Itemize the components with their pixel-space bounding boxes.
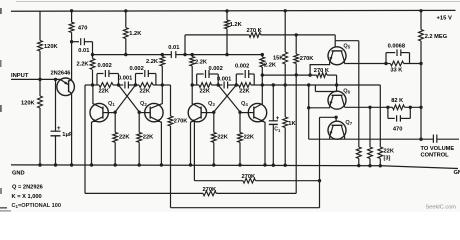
node box1 right — [117, 83, 120, 86]
svg-text:22K: 22K — [140, 88, 151, 94]
svg-text:470: 470 — [78, 25, 88, 31]
svg-text:0.001: 0.001 — [217, 76, 231, 82]
resistor R1 120K upper — [38, 41, 43, 52]
resistor R13 1.2K — [225, 20, 230, 29]
svg-text:Q4: Q4 — [241, 101, 248, 107]
wire 1.2K-2 column — [226, 11, 228, 20]
svg-text:2.2K: 2.2K — [146, 59, 159, 65]
wire Q1 base 22K — [114, 113, 116, 133]
node 270K line P — [295, 73, 298, 76]
node Q4 base — [238, 111, 241, 114]
transistor Q2 circle — [145, 103, 163, 121]
svg-text:270 K: 270 K — [247, 28, 263, 34]
svg-text:2.2 MEG: 2.2 MEG — [425, 34, 448, 40]
resistor R25 270K line B — [203, 191, 216, 196]
scan artifact left edge marks — [0, 8, 2, 14]
wire Q4 base 22K — [239, 113, 241, 133]
node line1 R10 — [161, 53, 164, 56]
Q3 emitter lead — [191, 117, 202, 165]
wire line B feedback — [85, 84, 93, 86]
svg-text:0.002: 0.002 — [130, 66, 144, 72]
wire input line — [11, 78, 56, 80]
node Q3 emitter ground — [189, 163, 192, 166]
scan artifact top line — [16, 1, 460, 3]
wire slant box2 to Q1 base — [115, 85, 135, 112]
wire Q5 output line — [344, 63, 386, 65]
node 1.2K-2 rail — [225, 9, 228, 12]
Q6 collector lead — [341, 95, 344, 107]
svg-text:C1: C1 — [274, 127, 281, 133]
svg-text:22K: 22K — [119, 135, 130, 141]
svg-text:0.0068: 0.0068 — [388, 44, 405, 50]
node output bus — [419, 138, 422, 141]
svg-text:Q = 2N2926: Q = 2N2926 — [12, 185, 43, 191]
wire 2.2MEG column — [420, 11, 422, 30]
svg-text:22K: 22K — [99, 88, 110, 94]
svg-text:INPUT: INPUT — [11, 73, 29, 79]
node B2/470/cap junction — [70, 40, 73, 43]
Q7 base bar — [332, 124, 343, 126]
capacitor C3 0.01 coupling — [170, 51, 172, 58]
node R9 ground — [138, 163, 141, 166]
svg-text:2.2K: 2.2K — [195, 59, 208, 65]
Q6 emitter arrow — [330, 101, 333, 105]
svg-text:C1=OPTIONAL 100: C1=OPTIONAL 100 — [12, 203, 61, 209]
node R17 ground — [212, 163, 215, 166]
svg-text:[3]: [3] — [384, 156, 391, 162]
Q7 collector lead — [341, 125, 344, 139]
Q4 collector lead — [254, 85, 262, 108]
svg-text:+: + — [276, 116, 280, 122]
Q4 base bar — [253, 107, 255, 119]
resistor R16 22K coupling — [239, 83, 251, 88]
svg-text:Q7: Q7 — [345, 120, 352, 126]
wire Q7 base lead — [320, 116, 337, 118]
Q3 base bar — [200, 107, 202, 119]
wire 33K main — [386, 63, 390, 65]
svg-text:+: + — [57, 126, 61, 132]
capacitor C2 0.01 — [72, 41, 79, 43]
node 1.2K-1 rail — [124, 9, 127, 12]
wire Q1 collector load — [92, 55, 94, 59]
svg-text:22K: 22K — [244, 135, 255, 141]
resistor R20 2.2K Q4 load — [260, 57, 265, 67]
node 1uF ground — [54, 163, 57, 166]
node 2.2MEG rail — [419, 9, 422, 12]
node 470 rail junction — [70, 9, 73, 12]
wire slant box3 to Q4 base — [218, 85, 240, 112]
node Q2 base — [138, 111, 141, 114]
svg-text:2.2K: 2.2K — [77, 62, 90, 68]
resistor R29 22K output — [368, 147, 373, 159]
svg-text:Q3: Q3 — [208, 101, 215, 107]
svg-text:1K: 1K — [288, 121, 296, 127]
wire Q2 collector load — [161, 55, 163, 57]
svg-text:K = X 1,000: K = X 1,000 — [12, 194, 42, 200]
capacitor C12 470 — [387, 107, 389, 118]
resistor R15 22K coupling — [199, 83, 212, 88]
wire 120K column — [39, 11, 41, 41]
resistor R8 22K Q1 base — [113, 132, 118, 142]
capacitor C9 0.002 branch — [235, 74, 237, 85]
node Q2 emitter ground — [160, 163, 163, 166]
svg-text:22K: 22K — [239, 88, 250, 94]
svg-text:Q6: Q6 — [343, 89, 350, 95]
resistor R26 33K — [390, 61, 403, 66]
node C10 junction — [272, 83, 275, 86]
Q1 collector lead — [93, 85, 103, 108]
node x309 line Q — [307, 83, 310, 86]
capacitor C11 0.0068 — [385, 53, 387, 64]
wire Q3 base 22K — [213, 113, 215, 133]
Q5 base bar — [332, 50, 343, 52]
node R19 ground — [238, 163, 241, 166]
capacitor C7 0.002 branch — [196, 74, 198, 85]
wire 15K column — [284, 11, 286, 52]
node UJT B1 ground — [70, 163, 73, 166]
resistor R28 270K — [317, 73, 328, 78]
UJT emitter arrow — [64, 81, 68, 84]
svg-text:CONTROL: CONTROL — [421, 152, 450, 158]
capacitor C5 0.001 — [119, 84, 124, 86]
wire box1 bottom w/ 22K — [93, 84, 100, 86]
node line2 R20 — [261, 53, 264, 56]
Q2 emitter arrow — [157, 119, 161, 122]
svg-text:120K: 120K — [44, 44, 58, 50]
Q5 emitter lead — [310, 51, 333, 75]
wire node line 2 — [185, 54, 262, 56]
resistor R17 22K Q3 base — [211, 132, 216, 142]
wire x309 column — [308, 85, 310, 139]
svg-text:120K: 120K — [21, 101, 35, 107]
node box2 left — [134, 83, 137, 86]
wire Q1 base lead — [103, 112, 115, 114]
Q1 emitter lead — [92, 117, 103, 165]
node Q7 base — [334, 116, 337, 119]
node Q4 collector — [261, 83, 264, 86]
resistor R5 2.2K Q1 load — [90, 59, 95, 70]
transistor Q7 circle — [328, 121, 346, 139]
resistor R3 470 — [69, 22, 74, 32]
node 15K mid line — [284, 83, 287, 86]
capacitor C13 output coupling — [432, 135, 434, 143]
svg-text:270K: 270K — [242, 174, 256, 180]
svg-text:270K: 270K — [203, 187, 217, 193]
transistor Q8 2N2646 UJT circle — [57, 78, 75, 96]
svg-text:Q5: Q5 — [343, 44, 350, 50]
Q4 emitter lead — [254, 117, 265, 165]
node line2 R14 — [191, 53, 194, 56]
wire box4 bottom w/ 22K — [236, 84, 238, 86]
node R29 ground — [368, 164, 371, 167]
Q4 emitter arrow — [261, 119, 265, 122]
transistor Q6 circle — [328, 91, 346, 109]
resistor R2 120K lower — [38, 96, 43, 108]
Q3 emitter arrow — [191, 119, 195, 122]
wire Q5 base lead — [334, 41, 336, 47]
svg-text:22K: 22K — [384, 149, 395, 155]
svg-text:270K: 270K — [300, 56, 314, 62]
UJT emitter lead — [56, 79, 69, 84]
svg-text:+15 V: +15 V — [437, 15, 452, 21]
node x309 Q6 emitter — [307, 106, 310, 109]
wire 1K column — [284, 85, 286, 117]
wire line P Q4 to Q6 base — [262, 74, 316, 76]
node line1-C2 — [91, 53, 94, 56]
resistor R27 22K output — [356, 147, 361, 159]
svg-text:GND: GND — [12, 171, 25, 177]
svg-text:2N2646: 2N2646 — [51, 71, 71, 77]
transistor Q4 circle — [248, 103, 266, 121]
wire C10 branch — [272, 85, 274, 121]
wire Q3 base lead — [201, 112, 214, 114]
Q6 emitter lead — [309, 95, 334, 108]
node 82K bus — [419, 106, 422, 109]
Q7 emitter arrow — [330, 131, 333, 135]
wire coupling riser — [184, 35, 186, 55]
wire Q3 collector load — [191, 55, 193, 57]
wire Q4 collector load — [261, 55, 263, 57]
Q5 collector lead — [341, 51, 344, 64]
node y35 x296 — [295, 33, 298, 36]
svg-text:1.2K: 1.2K — [129, 31, 142, 37]
wire +15V top supply rail — [11, 9, 456, 12]
UJT base bar — [68, 80, 70, 92]
resistor R30 82K — [393, 105, 405, 110]
svg-text:22K: 22K — [143, 135, 154, 141]
resistor R24 270K — [294, 54, 299, 64]
wire Q6 output line — [345, 106, 388, 108]
svg-text:270K: 270K — [174, 119, 188, 125]
svg-text:SeekIC.com: SeekIC.com — [426, 205, 457, 211]
Q2 emitter lead — [150, 117, 161, 165]
wire Q2 base 22K — [138, 113, 140, 133]
Q6 base bar — [332, 94, 343, 96]
node 82K right — [409, 106, 412, 109]
resistor R7 22K coupling — [139, 83, 153, 88]
svg-text:TO VOLUME: TO VOLUME — [421, 146, 455, 152]
capacitor C6 0.002 branch — [135, 74, 137, 86]
wire line Q step detour — [314, 85, 316, 92]
resistor R12 270K — [249, 33, 261, 38]
wire line A feedback — [193, 121, 195, 180]
node Q6 base junction — [335, 83, 338, 86]
wire UJT B1 lead — [69, 91, 72, 165]
wire x358 column — [358, 41, 360, 147]
wire 270K column x296 — [295, 35, 297, 54]
wire Q6 base lead — [336, 85, 338, 91]
node box4 left — [235, 83, 238, 86]
resistor R19 22K Q4 base — [238, 132, 243, 142]
resistor R22 15K — [283, 52, 288, 64]
wire line C feedback — [171, 207, 320, 209]
Q3 collector lead — [192, 85, 201, 108]
svg-text:470: 470 — [393, 127, 403, 133]
svg-text:2.2K: 2.2K — [264, 62, 277, 68]
capacitor C4 0.002 branch — [96, 74, 98, 86]
node 1.2K-1 line1 — [124, 53, 127, 56]
resistor R9 22K Q2 base — [137, 132, 142, 142]
wire Q5 branch right — [335, 40, 359, 42]
wire slant box1 to Q2 base — [119, 85, 140, 112]
svg-text:0.002: 0.002 — [98, 63, 112, 69]
svg-text:0.01: 0.01 — [78, 48, 89, 54]
wire output line — [309, 138, 434, 140]
svg-text:0.002: 0.002 — [235, 64, 249, 70]
wire slant box4 to Q3 base — [214, 85, 237, 112]
svg-text:Q2: Q2 — [140, 101, 147, 107]
wire 270K column — [170, 85, 172, 116]
wire 82K main — [388, 106, 393, 108]
Q5 emitter arrow — [330, 57, 333, 61]
node R8 ground — [114, 163, 117, 166]
node line P at R20 — [261, 73, 264, 76]
svg-text:33 K: 33 K — [390, 68, 403, 74]
node Q2 collector — [161, 83, 164, 86]
transistor Q1 circle — [90, 103, 108, 121]
svg-text:22K: 22K — [217, 135, 228, 141]
svg-text:0.001: 0.001 — [118, 75, 132, 81]
capacitor C8 0.001 — [218, 84, 222, 86]
wire y35 line — [185, 34, 249, 36]
capacitor C1 1uF electrolytic — [51, 130, 61, 132]
svg-text:1.2K: 1.2K — [230, 22, 243, 28]
wire 470 column — [71, 11, 73, 22]
svg-text:15K: 15K — [273, 55, 284, 61]
node line C / line A junction — [318, 179, 321, 182]
wire 1uF branch — [55, 79, 57, 131]
wire 1.2K-1 column — [125, 11, 127, 28]
node 1K ground — [284, 164, 287, 167]
resistor R4 1.2K — [123, 28, 128, 39]
Q1 base bar — [102, 107, 104, 119]
wire box2 bottom w/ 22K — [136, 84, 140, 86]
node 33K right bus — [419, 62, 422, 65]
node Q3 base — [212, 111, 215, 114]
wire node line 1 — [93, 54, 172, 56]
node Q4 emitter ground — [263, 163, 266, 166]
wire box3 bottom w/ 22K — [192, 84, 199, 86]
node input-emitter junction — [54, 78, 57, 81]
wire Q2 coll to 270K — [162, 84, 170, 86]
resistor R10 2.2K Q2 load — [160, 57, 165, 67]
node Q1 base — [114, 111, 117, 114]
node R2 ground — [38, 163, 41, 166]
transistor Q5 circle — [328, 47, 346, 65]
wire UJT B2 lead — [69, 42, 72, 82]
wire 22K2 column — [369, 107, 371, 147]
resistor R6 22K coupling — [99, 83, 113, 88]
node Q1 collector — [91, 83, 94, 86]
Q7 emitter lead — [330, 125, 334, 139]
node box3 right — [217, 83, 220, 86]
wire Q4 base lead — [240, 112, 254, 114]
resistor R11 270K — [168, 116, 173, 126]
Q2 base bar — [149, 107, 151, 119]
svg-text:270 K: 270 K — [314, 68, 330, 74]
wire mid line — [262, 84, 380, 86]
wire Q2 base lead — [139, 112, 150, 114]
Q1 emitter arrow — [92, 119, 96, 122]
ground rail GND — [11, 165, 458, 169]
scan artifact bottom marks — [0, 207, 7, 209]
node input junction — [38, 78, 41, 81]
resistor R14 2.2K Q3 load — [190, 57, 195, 67]
resistor R21 22K output — [378, 147, 383, 159]
node C10 ground — [272, 164, 275, 167]
node Q3 collector — [191, 83, 194, 86]
node R21 ground — [379, 164, 382, 167]
node Q1 emitter ground — [90, 163, 93, 166]
resistor R18 270K line A — [243, 178, 256, 183]
node 15K rail — [284, 9, 287, 12]
node 82K left — [386, 106, 389, 109]
svg-text:Q1: Q1 — [108, 101, 115, 107]
resistor R23 1K — [283, 117, 288, 128]
svg-text:82 K: 82 K — [391, 98, 404, 104]
node line1 x185 — [183, 53, 186, 56]
node 22K2 top — [368, 106, 371, 109]
svg-text:0.01: 0.01 — [168, 45, 179, 51]
transistor Q3 circle — [188, 103, 206, 121]
capacitor C10 C1 optional — [269, 120, 278, 122]
svg-text:GN: GN — [454, 170, 460, 176]
node R27 ground — [357, 164, 360, 167]
node line P Q5 emitter — [308, 73, 311, 76]
svg-text:22K: 22K — [200, 88, 211, 94]
resistor R31 2.2MEG — [419, 30, 424, 42]
Q2 collector lead — [150, 85, 162, 108]
node 33K left — [384, 62, 387, 65]
svg-text:0.002: 0.002 — [209, 66, 223, 72]
node 1.2K-2 line2 — [225, 53, 228, 56]
